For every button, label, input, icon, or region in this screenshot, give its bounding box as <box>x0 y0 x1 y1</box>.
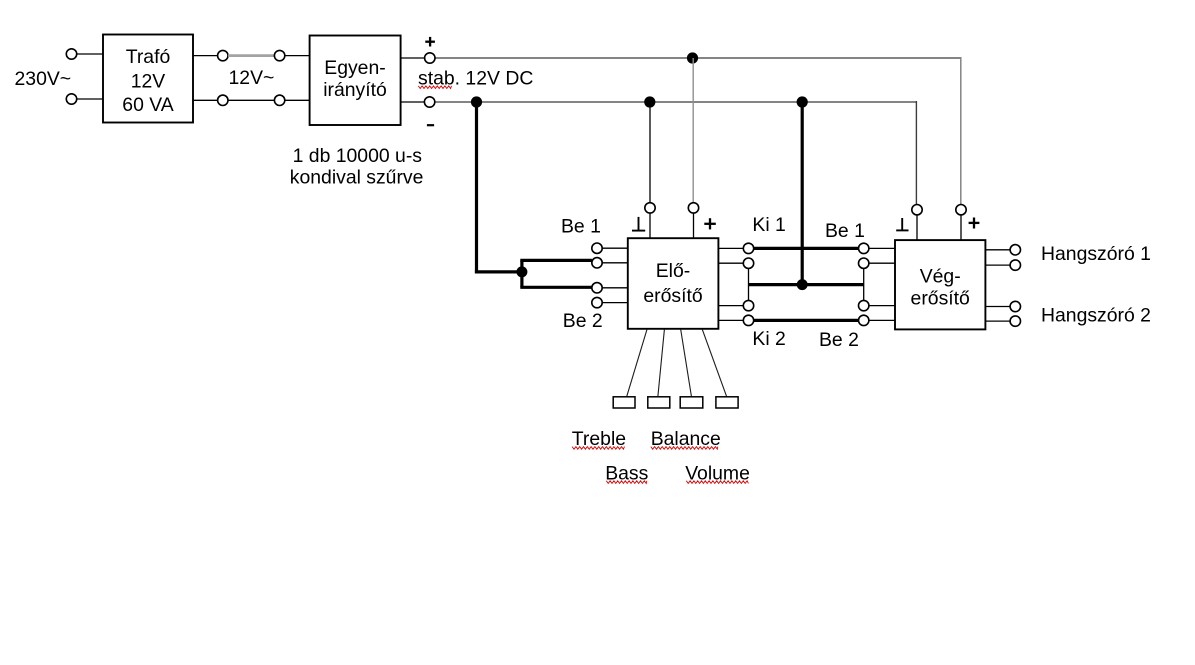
squiggle under Balance <box>651 447 718 450</box>
svg-text:Be 2: Be 2 <box>563 310 603 332</box>
wire Elo out3 stub <box>718 305 743 307</box>
wire pot lever Balance <box>681 329 692 396</box>
wire Be2b stub <box>602 302 628 304</box>
wire dropper + rail to Elo + pin <box>692 58 694 203</box>
wire Ki1b down to bus <box>748 268 750 300</box>
wire amp in2 stub <box>869 262 895 264</box>
block Trafo 12V 60 VA <box>103 35 193 123</box>
wire 12V link top gray <box>228 54 274 57</box>
wire Be2a stub <box>602 287 628 289</box>
wire thick vertical at junction <box>520 260 523 287</box>
wire thick to Be1 shield <box>520 259 592 262</box>
node junction on + rail above Elo + pin <box>687 52 698 63</box>
terminal Ki2 a <box>743 300 753 310</box>
terminal Elo + pin <box>688 203 698 213</box>
node signal ground junction <box>797 279 808 290</box>
wire trafo out bottom stub <box>194 99 218 101</box>
block Veg-erosito power amp <box>895 240 985 329</box>
svg-text:Hangszóró 1: Hangszóró 1 <box>1041 243 1151 265</box>
svg-text:stab. 12V DC: stab. 12V DC <box>418 67 533 89</box>
wire 12V link bottom <box>228 99 274 101</box>
wire 230V top stub <box>77 53 104 55</box>
svg-text:erősítő: erősítő <box>643 285 702 307</box>
terminal Be2 a <box>592 283 602 293</box>
wire Elo out2 stub <box>718 262 743 264</box>
terminal Be1 amp b <box>859 258 869 268</box>
wire amp in4 stub <box>869 319 895 321</box>
terminal Be2 amp a <box>859 300 869 310</box>
node junction on - rail to signal ground bus <box>797 96 808 107</box>
terminal Be2 b <box>592 297 602 307</box>
terminal 230V input bottom <box>66 94 76 104</box>
terminal rectifier - out <box>424 97 434 107</box>
label + Elo supply <box>704 223 716 225</box>
label + rectifier output <box>425 41 435 43</box>
wire Veg gnd pin stub <box>916 215 918 240</box>
terminal Veg + pin <box>956 205 966 215</box>
wire Elo gnd pin stub <box>649 213 651 238</box>
terminal Ki1 a <box>743 243 753 253</box>
terminal Veg gnd pin <box>912 205 922 215</box>
terminal rectifier + out <box>425 53 435 63</box>
svg-text:Elő-: Elő- <box>656 260 690 282</box>
wire thick to Be2 shield <box>520 286 591 289</box>
terminal Be2 amp b <box>859 315 869 325</box>
label + Veg supply <box>969 222 980 224</box>
pot Treble <box>613 397 635 408</box>
terminal Be1 a <box>592 243 602 253</box>
wire amp in1 stub <box>869 247 895 249</box>
wire thick ground drop x802 <box>801 102 804 285</box>
label - rectifier output <box>427 124 434 126</box>
terminal speaker1 a <box>1010 245 1020 255</box>
terminal speaker2 a <box>1010 301 1020 311</box>
svg-text:erősítő: erősítő <box>911 288 970 310</box>
symbol ground Veg <box>901 218 903 230</box>
pot Bass <box>648 397 670 408</box>
block Egyen-iranyito rectifier <box>310 36 401 126</box>
svg-text:Trafó: Trafó <box>126 46 171 68</box>
svg-text:12V~: 12V~ <box>229 67 275 89</box>
wire thick horizontal to junction <box>475 270 522 273</box>
terminal 230V input top <box>66 49 76 59</box>
svg-text:Ki 2: Ki 2 <box>752 328 785 350</box>
terminal Be1 amp a <box>859 243 869 253</box>
svg-text:irányító: irányító <box>323 79 387 101</box>
wire + rail drop to Veg-erosito + pin <box>960 57 962 205</box>
wire Be1a stub <box>602 247 628 249</box>
terminal speaker2 b <box>1010 316 1020 326</box>
wire speaker2 a stub <box>986 306 1011 308</box>
terminal trafo secondary top <box>218 50 228 60</box>
wire - rail drop to Veg-erosito gnd pin <box>915 101 917 205</box>
wire 230V bottom stub <box>77 98 104 100</box>
symbol ground Elo <box>638 217 640 231</box>
terminal rectifier in bottom <box>274 95 284 105</box>
squiggle under stab <box>418 86 451 89</box>
wire Be1b stub <box>602 262 628 264</box>
wire rectifier + stub <box>401 57 425 59</box>
wire speaker1 b stub <box>986 264 1011 266</box>
node input-ground junction <box>516 266 527 277</box>
wire speaker1 a stub <box>986 249 1011 251</box>
wire Elo out4 stub <box>718 319 743 321</box>
pot Balance <box>680 397 703 408</box>
wire + rail from rectifier to power amp <box>435 57 961 59</box>
block Elo-erosito preamp <box>628 238 719 329</box>
terminal Ki2 b <box>743 315 753 325</box>
svg-text:Vég-: Vég- <box>920 265 961 287</box>
wire rectifier in top stub <box>285 55 310 57</box>
wire Elo + pin stub <box>693 213 695 238</box>
svg-text:230V~: 230V~ <box>15 68 72 90</box>
wire Veg + pin stub <box>960 215 962 240</box>
wire thick signal ground bus <box>749 283 864 286</box>
wire rectifier - stub <box>401 101 424 103</box>
terminal speaker1 b <box>1010 260 1020 270</box>
wire dropper - rail to Elo gnd pin <box>649 102 651 203</box>
wire - rail from rectifier <box>434 101 916 103</box>
wire pot lever Volume <box>702 329 726 396</box>
svg-text:Bass: Bass <box>605 462 648 484</box>
node junction on - rail above Elo gnd pin <box>644 96 655 107</box>
node junction on - rail to preamp inputs <box>471 96 482 107</box>
pot Volume <box>716 397 738 408</box>
svg-text:12V: 12V <box>131 71 166 93</box>
wire Be1b down to bus <box>863 268 865 300</box>
svg-text:Be 1: Be 1 <box>825 220 865 242</box>
wire pot lever Treble <box>627 329 647 396</box>
squiggle under Volume <box>686 481 748 484</box>
wire thick Ki2 to Be2 <box>754 319 859 322</box>
wire trafo out top stub <box>194 55 218 57</box>
wire pot lever Bass <box>658 329 665 396</box>
terminal rectifier in top <box>274 50 284 60</box>
wire thick Ki1 to Be1 <box>754 247 859 250</box>
wire Elo out1 stub <box>718 247 743 249</box>
squiggle under Bass <box>606 481 647 484</box>
svg-text:Egyen-: Egyen- <box>324 57 385 79</box>
terminal trafo secondary bottom <box>218 95 228 105</box>
wire rectifier in bottom stub <box>285 99 310 101</box>
terminal Ki1 b <box>743 258 753 268</box>
terminal Elo gnd pin <box>645 203 655 213</box>
svg-text:Be 2: Be 2 <box>819 329 859 351</box>
wire speaker2 b stub <box>986 320 1011 322</box>
terminal Be1 b <box>592 258 602 268</box>
svg-text:Ki 1: Ki 1 <box>752 214 785 236</box>
svg-text:Be 1: Be 1 <box>561 216 601 238</box>
svg-text:60 VA: 60 VA <box>122 94 173 116</box>
svg-text:1 db 10000 u-s: 1 db 10000 u-s <box>293 145 422 167</box>
wire thick ground drop x476 <box>475 102 478 274</box>
wire amp in3 stub <box>869 305 895 307</box>
squiggle under Treble <box>572 447 624 450</box>
svg-text:Hangszóró 2: Hangszóró 2 <box>1041 304 1151 326</box>
svg-text:kondival szűrve: kondival szűrve <box>290 167 424 189</box>
